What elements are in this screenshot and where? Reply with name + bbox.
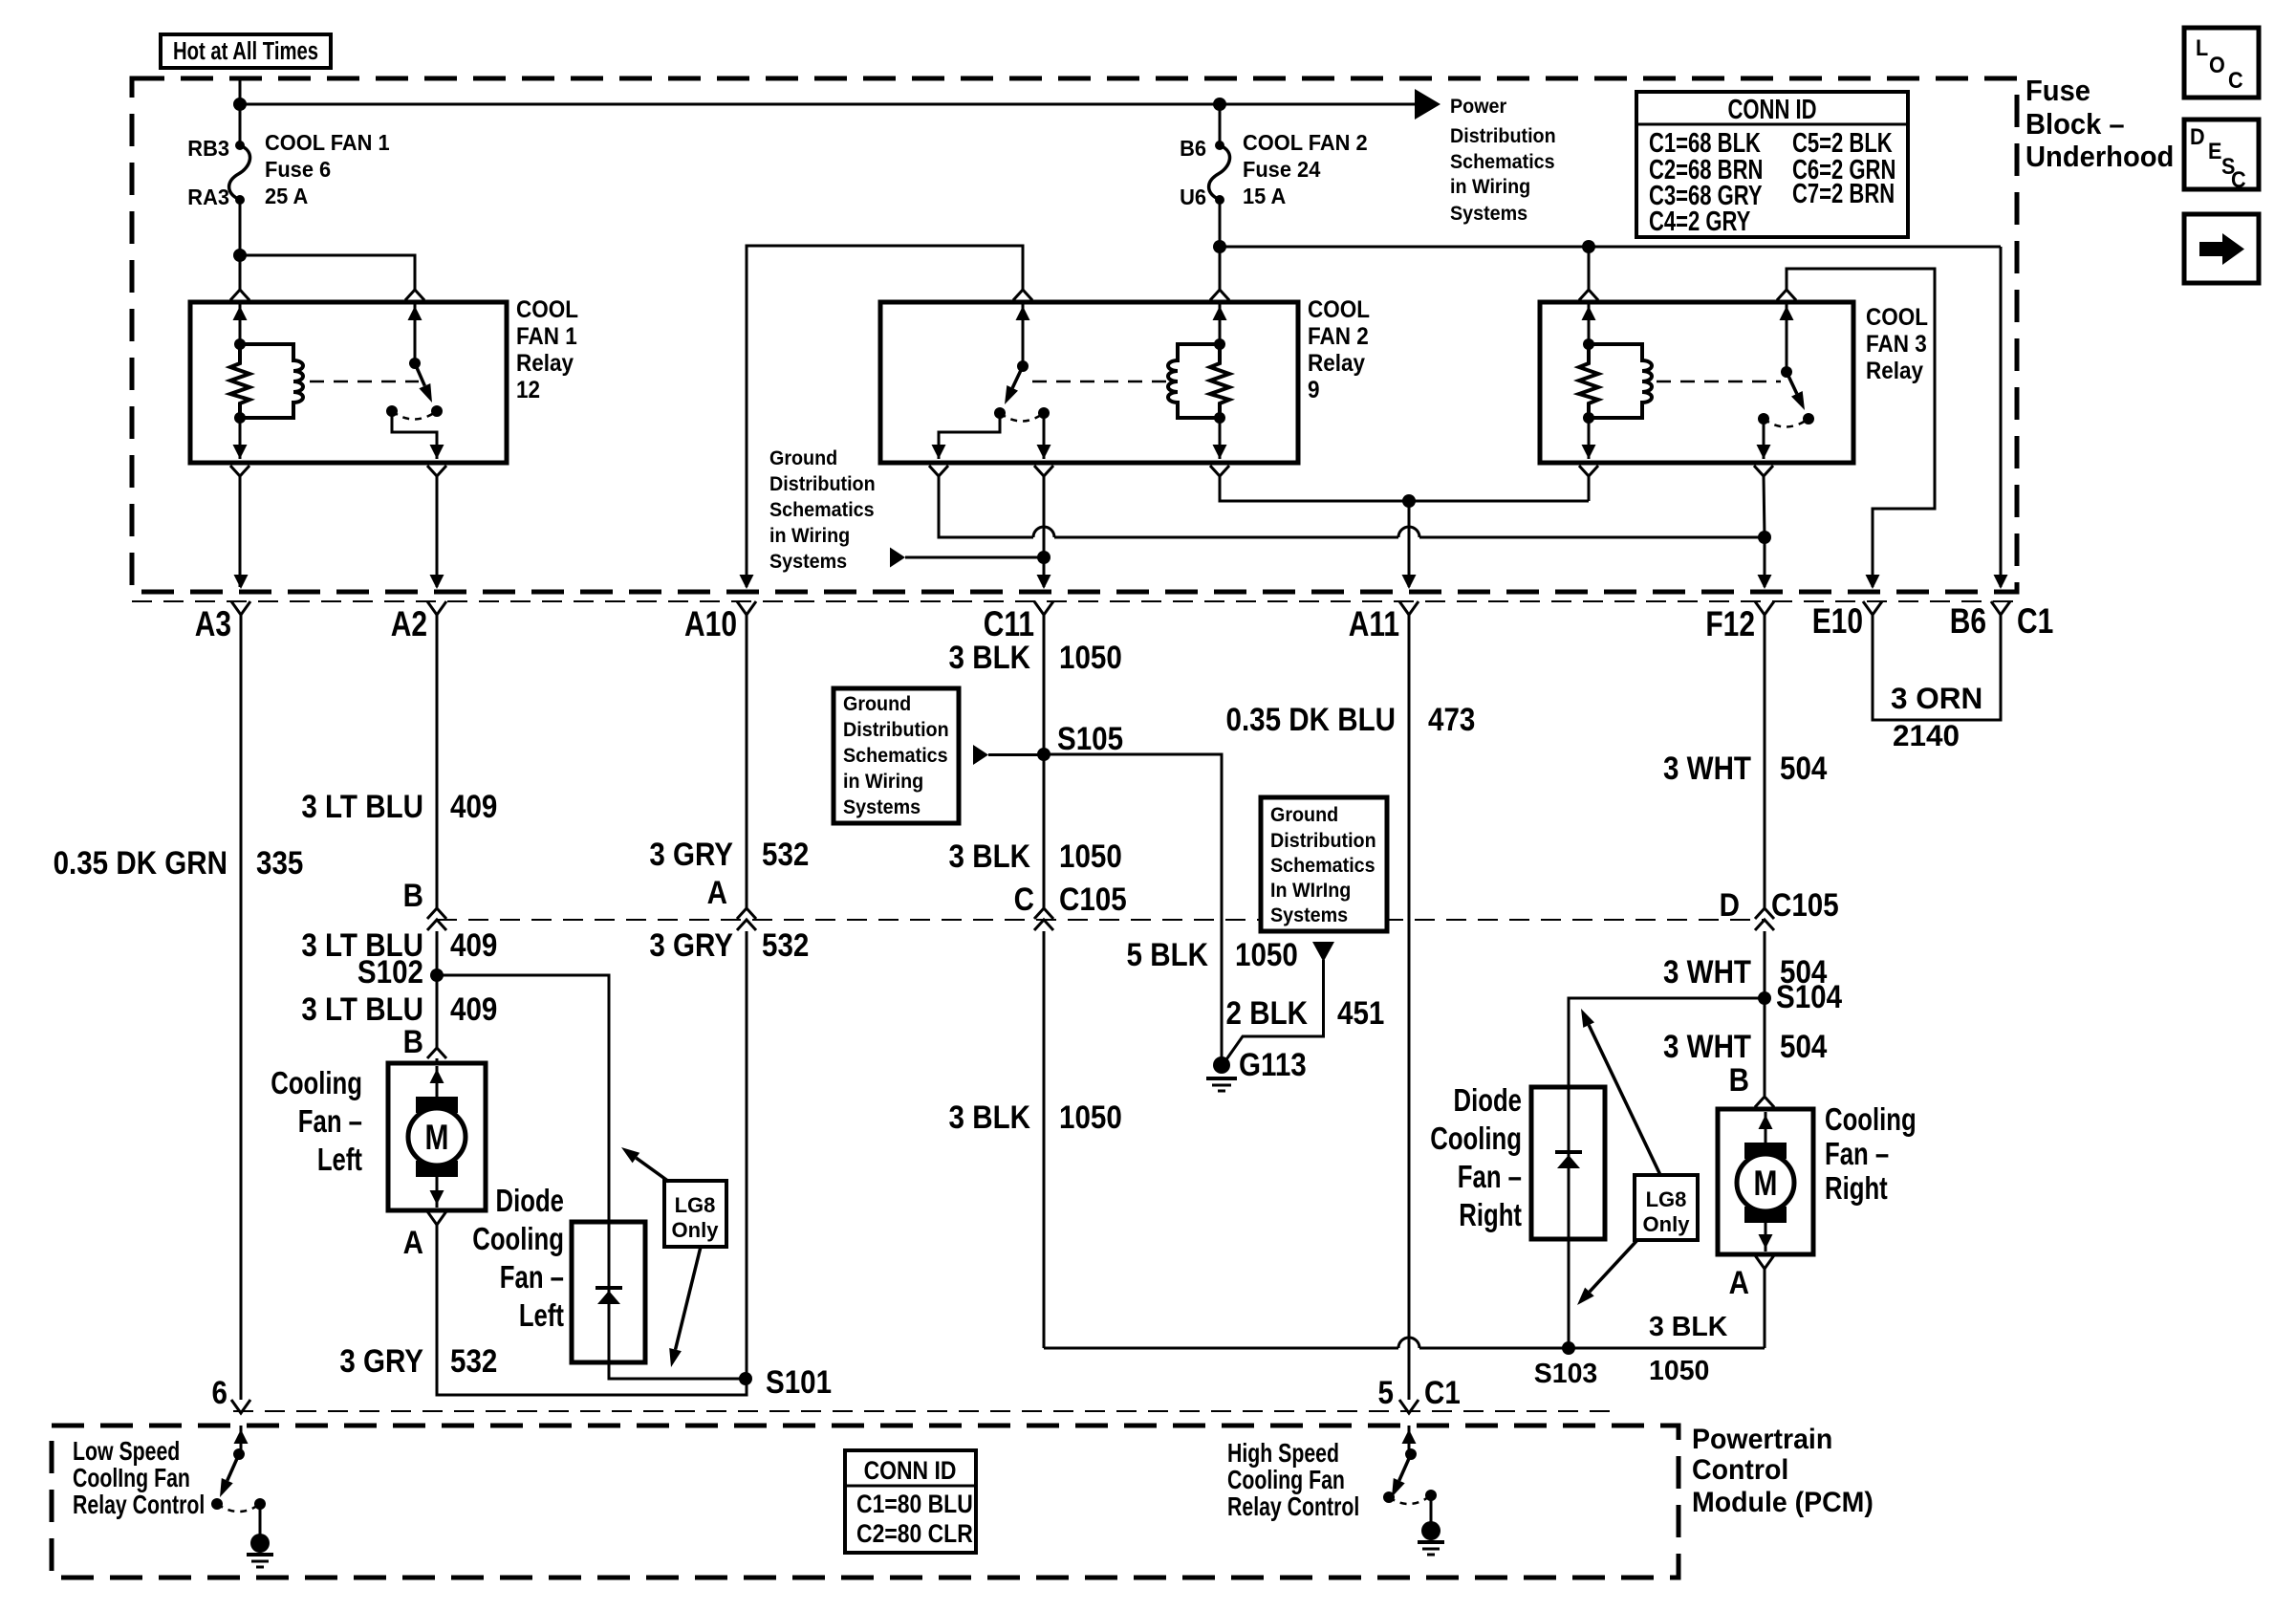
relay K3 switch contacts <box>1758 413 1769 425</box>
relay K2 "COOL FAN 2 Relay 9" box <box>880 302 1298 463</box>
svg-text:C1: C1 <box>1424 1374 1461 1410</box>
pin A3 connector <box>231 601 250 615</box>
svg-text:in Wiring: in Wiring <box>843 771 923 793</box>
svg-text:B: B <box>403 877 423 913</box>
relay K1 mechanical link (dashed) <box>310 381 419 383</box>
svg-text:Fan –: Fan – <box>1458 1160 1522 1195</box>
svg-text:3 BLK: 3 BLK <box>949 838 1030 874</box>
svg-text:LG8: LG8 <box>675 1193 716 1217</box>
svg-text:C1: C1 <box>2017 602 2053 642</box>
svg-text:Cooling: Cooling <box>1430 1121 1522 1157</box>
svg-text:C2=80 CLR: C2=80 CLR <box>856 1519 973 1548</box>
svg-text:Fuse: Fuse <box>2025 75 2090 107</box>
relay K1 switch output jog wire <box>392 411 437 459</box>
svg-text:532: 532 <box>762 836 809 872</box>
svg-text:RA3: RA3 <box>187 185 229 209</box>
svg-text:in Wiring: in Wiring <box>769 525 850 547</box>
powertrain control module dashed enclosure <box>52 1426 1679 1578</box>
wire switch to ground (high speed) <box>1430 1495 1433 1522</box>
wire relay K2 coil output + relay K3 coil output to pin A11 <box>1220 476 1589 501</box>
wire stub to relay K3 coil pin <box>1588 247 1591 290</box>
relay K2 coil pin bottom connector <box>1219 418 1222 459</box>
svg-text:409: 409 <box>450 926 497 963</box>
svg-text:9: 9 <box>1308 377 1320 403</box>
svg-text:C: C <box>1014 881 1034 917</box>
svg-text:3 BLK: 3 BLK <box>949 639 1030 675</box>
svg-text:O: O <box>2209 52 2225 77</box>
relay K3 coil pin bottom connector <box>1588 418 1591 459</box>
svg-text:In WIrIng: In WIrIng <box>1270 880 1351 902</box>
high speed relay control switch arm <box>1399 1454 1411 1481</box>
svg-text:3 GRY: 3 GRY <box>649 836 733 872</box>
svg-text:F12: F12 <box>1705 605 1755 644</box>
wire relay K3 switch output to pin F12 <box>1764 476 1765 537</box>
svg-text:Systems: Systems <box>1450 203 1527 225</box>
svg-text:409: 409 <box>450 991 497 1027</box>
svg-text:A: A <box>403 1224 423 1260</box>
motor M2 Cooling Fan - Right <box>1718 1109 1813 1254</box>
svg-text:Power: Power <box>1450 96 1506 118</box>
wire pin E10 riser to relay K3 switch feed <box>1787 269 1935 587</box>
svg-text:Schematics: Schematics <box>769 499 875 521</box>
svg-text:CONN ID: CONN ID <box>1727 95 1816 125</box>
svg-text:3 WHT: 3 WHT <box>1663 750 1751 786</box>
svg-text:LG8: LG8 <box>1646 1187 1687 1211</box>
relay K3 suppression resistor <box>1579 344 1598 418</box>
wire ground rail 1050 to S103 and fan right pin A (hop at A11) <box>1044 1347 1398 1350</box>
svg-text:G113: G113 <box>1239 1046 1307 1082</box>
svg-text:M: M <box>1754 1165 1778 1204</box>
low speed relay control switch pivot <box>233 1448 245 1460</box>
legend box forward arrow <box>2184 214 2259 283</box>
svg-text:Relay: Relay <box>1308 350 1366 377</box>
svg-text:L: L <box>2196 34 2208 60</box>
wire 532 connector A to splice S101 <box>746 931 748 1379</box>
callout arrow LG8 to 409 wire <box>636 1158 669 1182</box>
svg-text:M: M <box>425 1119 449 1158</box>
wire 0.35 DK GRN 335 pin A3 to PCM pin 6 <box>240 615 243 1400</box>
wire pin A10 riser to relay K2 switch feed <box>747 246 1023 587</box>
relay K1 coil bottom node <box>234 412 246 424</box>
svg-text:15 A: 15 A <box>1243 184 1286 208</box>
splice S101 <box>739 1372 752 1385</box>
splice S102 <box>430 969 444 982</box>
relay K2 switch contacts <box>994 407 1006 419</box>
connector C105 in-line connector (thin dashed) <box>437 919 1765 921</box>
svg-text:Diode: Diode <box>1454 1083 1522 1119</box>
svg-text:Underhood: Underhood <box>2025 141 2174 173</box>
svg-text:3 BLK: 3 BLK <box>1649 1312 1728 1342</box>
svg-text:532: 532 <box>450 1342 497 1379</box>
wire 3 ORN 2140 loop E10 to B6 <box>1873 615 2001 720</box>
svg-text:Powertrain: Powertrain <box>1692 1424 1832 1455</box>
wire S102 branch to diode cooling fan left <box>437 975 609 1222</box>
relay K2 switch feed pin connector <box>1013 290 1032 300</box>
svg-text:C1=80 BLU: C1=80 BLU <box>856 1490 973 1518</box>
svg-text:Relay Control: Relay Control <box>73 1490 205 1520</box>
junction above Fuse 24 <box>1213 98 1226 111</box>
relay K1 switch pivot <box>409 358 421 369</box>
svg-text:Left: Left <box>317 1143 362 1178</box>
svg-text:2140: 2140 <box>1893 718 1960 752</box>
pin B6 / C1 connector <box>1991 601 2010 615</box>
wire relay K1 switch output to pin A2 <box>436 476 439 587</box>
diode D2 Cooling Fan - Right box <box>1531 1087 1605 1239</box>
diode D1 element <box>608 1222 611 1362</box>
svg-text:Only: Only <box>672 1218 720 1242</box>
svg-text:CONN ID: CONN ID <box>864 1456 957 1485</box>
svg-text:Right: Right <box>1825 1171 1888 1207</box>
wire 3 WHT 504 pin F12 to connector D <box>1764 615 1766 908</box>
svg-text:FAN 1: FAN 1 <box>516 323 577 350</box>
relay K1 suppression resistor <box>230 344 249 418</box>
wire relay K1 coil output to pin A3 <box>239 476 242 587</box>
wire 5 BLK 1050 S105 branch to ground G113 <box>1044 754 1222 1065</box>
svg-text:Control: Control <box>1692 1454 1788 1486</box>
fuse block underhood dashed enclosure <box>132 78 2017 592</box>
svg-text:Schematics: Schematics <box>843 745 948 767</box>
svg-text:Cooling: Cooling <box>271 1066 362 1101</box>
svg-text:Distribution: Distribution <box>1450 125 1556 147</box>
ground distribution reference arrow down (451 wire) <box>1312 942 1334 962</box>
relay K2 coil bottom node <box>1214 412 1225 424</box>
svg-text:Diode: Diode <box>496 1184 564 1219</box>
wire 3 GRY 532 pin A10 to connector A <box>746 615 748 908</box>
relay K3 mechanical link (dashed) <box>1657 381 1781 383</box>
wire 3 LT BLU 409 pin A2 down to connector B <box>436 615 439 908</box>
connector pin A of cooling fan right <box>1755 1255 1774 1269</box>
relay K1 coil winding <box>240 344 303 418</box>
low speed relay control switch arm <box>227 1454 239 1481</box>
relay K1 coil pin top connector <box>230 290 249 300</box>
svg-text:B: B <box>403 1023 423 1059</box>
svg-text:C105: C105 <box>1771 886 1839 923</box>
wire S104 branch to diode cooling fan right <box>1569 998 1765 1087</box>
relay K3 switch arm <box>1787 372 1797 394</box>
wire 504 connector D to splice S104 <box>1764 931 1766 998</box>
svg-text:Distribution: Distribution <box>1270 830 1376 852</box>
svg-text:Fuse 24: Fuse 24 <box>1243 157 1321 182</box>
pin F12 connector <box>1755 601 1774 615</box>
svg-text:RB3: RB3 <box>187 136 229 161</box>
wire C11 drop through fuse block border <box>1043 557 1046 587</box>
svg-text:Ground: Ground <box>843 693 911 715</box>
relay K3 coil winding <box>1589 344 1652 418</box>
svg-text:3 WHT: 3 WHT <box>1663 1028 1751 1064</box>
svg-text:0.35 DK BLU: 0.35 DK BLU <box>1226 701 1396 737</box>
wire diode D1 output to splice S101 <box>609 1362 746 1379</box>
svg-text:COOL: COOL <box>1308 296 1370 323</box>
svg-text:Cooling: Cooling <box>1825 1102 1917 1138</box>
svg-text:U6: U6 <box>1180 185 1206 209</box>
splice S103 <box>1562 1341 1575 1355</box>
high speed relay control switch pivot <box>1405 1448 1417 1460</box>
wire 504 S104 to cooling fan right pin B <box>1764 998 1766 1096</box>
relay K2 switch pivot <box>1017 360 1029 372</box>
svg-text:Schematics: Schematics <box>1450 151 1555 173</box>
svg-text:S103: S103 <box>1534 1359 1598 1389</box>
svg-text:Hot at All Times: Hot at All Times <box>173 37 318 65</box>
callout arrow LG8 to diode output wire <box>676 1247 701 1350</box>
node B+ feed junction above Fuse 6 <box>233 98 247 111</box>
svg-text:Systems: Systems <box>769 551 847 573</box>
ground symbol (low speed) <box>250 1534 270 1553</box>
callout box LG8 Only (left) <box>664 1181 726 1247</box>
svg-text:COOL: COOL <box>516 296 578 323</box>
svg-text:Cooling: Cooling <box>472 1222 564 1257</box>
ground distribution reference arrow to S105 <box>973 745 988 765</box>
label box "Hot at All Times" <box>161 34 331 68</box>
wire fan right pin A to ground rail <box>1764 1269 1766 1348</box>
svg-text:E: E <box>2208 138 2221 163</box>
relay K3 coil bottom node <box>1583 412 1594 424</box>
svg-text:3 WHT: 3 WHT <box>1663 953 1751 990</box>
svg-text:3 LT BLU: 3 LT BLU <box>301 788 423 824</box>
wire 3 BLK 1050 pin C11 to splice S105 <box>1043 615 1046 754</box>
svg-text:C105: C105 <box>1059 881 1127 917</box>
diode D1 Cooling Fan - Left box <box>572 1222 645 1362</box>
wire relay K2 left output to F12 net (hops C11 and A11) <box>939 476 1033 537</box>
svg-text:5: 5 <box>1378 1374 1394 1410</box>
svg-text:A11: A11 <box>1349 605 1399 644</box>
pin E10 connector <box>1863 601 1882 615</box>
relay K1 coil top node <box>234 338 246 350</box>
wire 409 connector B to splice S102 <box>436 931 439 975</box>
pin A2 connector <box>427 601 446 615</box>
svg-text:C5=2 BLK: C5=2 BLK <box>1792 128 1893 159</box>
relay K2 coil pin top connector <box>1210 290 1229 300</box>
relay K3 "COOL FAN 3 Relay" box <box>1540 302 1853 463</box>
svg-text:1050: 1050 <box>1059 838 1122 874</box>
svg-text:409: 409 <box>450 788 497 824</box>
arrow to Power Distribution Schematics <box>1415 89 1440 120</box>
svg-text:2 BLK: 2 BLK <box>1226 994 1308 1031</box>
svg-text:Right: Right <box>1459 1198 1522 1233</box>
svg-text:5 BLK: 5 BLK <box>1127 936 1208 972</box>
PCM connector ID table <box>845 1450 976 1553</box>
relay K1 "COOL FAN 1 Relay 12" box <box>190 302 507 463</box>
ground symbol (high speed) <box>1421 1521 1440 1540</box>
svg-text:A2: A2 <box>391 605 427 644</box>
pin A11 connector <box>1399 601 1419 615</box>
svg-text:COOL FAN 2: COOL FAN 2 <box>1243 130 1368 155</box>
wire 3 GRY 532 fan left pin A to splice S101 <box>437 1225 747 1395</box>
svg-text:504: 504 <box>1780 750 1828 786</box>
fuse F6 "COOL FAN 1 Fuse 6 25 A" with terminals RB3/RA3 <box>235 141 245 150</box>
svg-text:1050: 1050 <box>1059 1099 1122 1135</box>
svg-text:FAN 3: FAN 3 <box>1866 331 1927 358</box>
wire 0.35 DK BLU 473 pin A11 to PCM pin 5 <box>1408 615 1411 1400</box>
svg-text:Distribution: Distribution <box>769 473 876 495</box>
svg-text:Left: Left <box>519 1298 564 1334</box>
svg-text:1050: 1050 <box>1649 1356 1709 1386</box>
ground G113 <box>1213 1056 1230 1074</box>
svg-text:Systems: Systems <box>1270 904 1348 926</box>
relay K2 switch output jog to left pin <box>939 413 1000 459</box>
relay K2 mechanical link (dashed) <box>1032 381 1168 383</box>
relay K2 suppression resistor <box>1210 344 1229 418</box>
fuse F24 "COOL FAN 2 Fuse 24 15 A" terminals B6/U6 <box>1219 104 1222 145</box>
svg-text:3 GRY: 3 GRY <box>649 926 733 963</box>
diode D2 element <box>1568 1087 1570 1239</box>
ground distribution reference box (right) <box>1261 797 1387 931</box>
svg-text:1050: 1050 <box>1059 639 1122 675</box>
motor M1 Cooling Fan - Left <box>388 1063 486 1210</box>
svg-text:3 ORN: 3 ORN <box>1891 681 1982 715</box>
wire fuse block top feed from Fuse 6 to Power Distribution arrow <box>239 78 242 145</box>
svg-text:B: B <box>1729 1061 1749 1098</box>
svg-text:1050: 1050 <box>1235 936 1298 972</box>
callout box LG8 Only (right) <box>1635 1175 1698 1240</box>
svg-text:Fan –: Fan – <box>500 1260 564 1295</box>
relay K2 coil top node <box>1214 338 1225 350</box>
svg-text:Fan –: Fan – <box>298 1104 362 1140</box>
svg-text:FAN 2: FAN 2 <box>1308 323 1369 350</box>
svg-text:COOL: COOL <box>1866 304 1928 331</box>
svg-text:Relay: Relay <box>1866 358 1924 384</box>
relay K1 switch feed pin connector <box>405 290 424 300</box>
relay K3 switch pivot <box>1781 366 1792 378</box>
PCM connector line (thin dashed) <box>233 1410 1617 1412</box>
svg-text:D: D <box>2190 123 2205 149</box>
svg-text:Ground: Ground <box>1270 804 1338 826</box>
high speed relay control switch contacts <box>1383 1491 1395 1503</box>
legend box DESC <box>2184 120 2259 189</box>
relay K1 switch arm <box>415 363 424 386</box>
pin A10 connector <box>737 601 756 615</box>
svg-text:3 BLK: 3 BLK <box>949 1099 1030 1135</box>
ground distribution reference box (left) <box>834 688 959 823</box>
svg-text:Fuse 6: Fuse 6 <box>265 157 331 182</box>
relay K2 switch arm <box>1012 366 1023 388</box>
svg-text:C4=2 GRY: C4=2 GRY <box>1649 207 1750 237</box>
svg-text:451: 451 <box>1337 994 1384 1031</box>
wire 409 S102 to cooling fan left pin B <box>436 975 439 1048</box>
svg-text:3 GRY: 3 GRY <box>339 1342 423 1379</box>
relay K3 coil top node <box>1583 338 1594 350</box>
svg-text:532: 532 <box>762 926 809 963</box>
svg-text:in Wiring: in Wiring <box>1450 176 1530 198</box>
node A11 high speed control junction <box>1402 494 1416 508</box>
relay K3 switch output pin <box>1763 419 1765 459</box>
svg-text:S102: S102 <box>357 953 423 990</box>
splice S105 <box>1037 748 1051 761</box>
svg-text:A: A <box>1729 1264 1749 1300</box>
ground distribution reference arrow (upper) <box>890 548 905 568</box>
callout arrow LG8 right to diode output wire <box>1590 1240 1637 1292</box>
relay K3 coil pin top connector <box>1579 290 1598 300</box>
svg-text:S101: S101 <box>766 1363 832 1400</box>
relay K2 switch output right pin <box>1043 413 1046 459</box>
svg-text:S105: S105 <box>1057 720 1123 756</box>
svg-text:Fan –: Fan – <box>1825 1137 1889 1172</box>
wire pin B6 vertical drop <box>2000 247 2003 587</box>
svg-text:C1=68 BLK: C1=68 BLK <box>1649 128 1761 159</box>
callout arrow LG8 right to S104 corner <box>1589 1025 1660 1175</box>
svg-text:Systems: Systems <box>843 796 921 818</box>
svg-text:0.35 DK GRN: 0.35 DK GRN <box>54 844 227 881</box>
splice S104 <box>1758 991 1771 1005</box>
fuse block connector line (thin dashed) <box>132 600 2017 602</box>
relay K3 switch feed pin connector <box>1777 290 1796 300</box>
svg-text:C: C <box>2231 166 2246 192</box>
svg-text:E10: E10 <box>1812 602 1863 642</box>
svg-text:High Speed: High Speed <box>1227 1438 1339 1469</box>
svg-text:Ground: Ground <box>769 447 837 469</box>
wire switch to ground (low speed) <box>259 1504 262 1535</box>
svg-text:25 A: 25 A <box>265 184 308 208</box>
svg-text:B6: B6 <box>1950 602 1986 642</box>
connector ID table (fuse block) <box>1636 92 1908 237</box>
wire Fuse 24 output bus to relay K2 coil, relay K3 coil and pin B6 <box>1219 200 1222 290</box>
wire Fuse 6 output to relay K1 pins <box>239 200 242 290</box>
wire diode D2 output to splice S103 <box>1568 1239 1570 1348</box>
svg-text:335: 335 <box>256 844 303 881</box>
wire 2 BLK 451 to ground G113 <box>1224 960 1324 1062</box>
svg-text:Module (PCM): Module (PCM) <box>1692 1487 1874 1518</box>
pin C11 connector <box>1034 601 1053 615</box>
wire 1050 connector C down to ground rail <box>1043 931 1046 1348</box>
svg-text:A10: A10 <box>684 605 737 644</box>
svg-text:Relay Control: Relay Control <box>1227 1491 1359 1522</box>
svg-text:CoolIng Fan: CoolIng Fan <box>73 1463 190 1493</box>
relay K2 coil winding <box>1168 344 1220 418</box>
svg-text:COOL FAN 1: COOL FAN 1 <box>265 130 390 155</box>
svg-text:B6: B6 <box>1180 136 1206 161</box>
svg-text:Cooling Fan: Cooling Fan <box>1227 1465 1345 1495</box>
svg-text:504: 504 <box>1780 1028 1828 1064</box>
svg-text:6: 6 <box>212 1374 227 1410</box>
node S-F12 junction of relay2/relay3 outputs <box>1758 531 1771 544</box>
svg-text:C7=2 BRN: C7=2 BRN <box>1792 179 1895 209</box>
wire 1050 S105 to connector C <box>1043 754 1046 908</box>
relay K1 coil pin bottom connector <box>239 418 242 459</box>
legend box LOC <box>2184 28 2259 98</box>
svg-text:3 LT BLU: 3 LT BLU <box>301 991 423 1027</box>
svg-text:473: 473 <box>1428 701 1475 737</box>
node on C11 wire for ground distribution reference <box>1037 551 1051 564</box>
svg-text:A3: A3 <box>195 605 231 644</box>
svg-text:12: 12 <box>516 377 540 403</box>
svg-text:Only: Only <box>1643 1212 1691 1236</box>
low speed relay control switch contacts <box>211 1498 223 1510</box>
wire relay K2 right output to pin C11 <box>1043 476 1046 557</box>
svg-text:D: D <box>1720 886 1740 923</box>
relay K1 switch contacts <box>386 405 398 417</box>
connector pin A of cooling fan left <box>427 1211 446 1225</box>
svg-text:Relay: Relay <box>516 350 574 377</box>
svg-text:Block –: Block – <box>2025 108 2125 141</box>
svg-text:S104: S104 <box>1776 978 1842 1014</box>
svg-text:Distribution: Distribution <box>843 719 949 741</box>
svg-text:A: A <box>707 874 727 910</box>
svg-text:C: C <box>2228 67 2243 93</box>
svg-text:Schematics: Schematics <box>1270 855 1375 877</box>
svg-text:Low Speed: Low Speed <box>73 1436 180 1467</box>
